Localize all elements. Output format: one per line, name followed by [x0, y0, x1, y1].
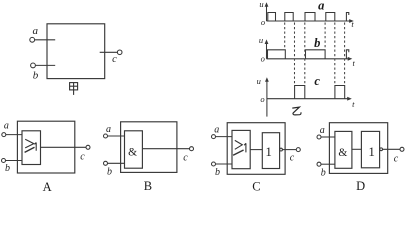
- option D wire a: [321, 136, 335, 138]
- chart a: u axis with arrow: [265, 2, 269, 21]
- terminal b of 甲 (circle): [31, 63, 36, 68]
- svg-text:c: c: [183, 153, 188, 164]
- chart a: partial pulse 5: [346, 13, 348, 22]
- chart b: u axis with arrow: [265, 39, 269, 58]
- chart a: pulse 3: [305, 13, 315, 22]
- option D inner AND-gate box U1: [335, 131, 352, 168]
- option C inner OR-gate box U1: [232, 130, 250, 168]
- svg-text:b: b: [215, 167, 220, 178]
- option D output wire c: [383, 148, 401, 150]
- svg-text:c: c: [112, 54, 117, 65]
- svg-text:u: u: [257, 76, 261, 86]
- svg-text:&: &: [338, 147, 347, 159]
- svg-text:&: &: [128, 147, 137, 159]
- svg-text:C: C: [252, 180, 260, 194]
- option B outer box: [121, 122, 177, 173]
- option A terminal c (circle): [86, 145, 90, 149]
- svg-text:1: 1: [368, 144, 375, 159]
- svg-text:u: u: [259, 0, 263, 9]
- terminal c of 甲 (circle): [117, 50, 122, 55]
- svg-text:b: b: [314, 36, 320, 50]
- svg-text:b: b: [107, 167, 112, 178]
- option B terminal c (circle): [190, 147, 194, 151]
- chart b: partial pulse 3: [346, 50, 348, 59]
- svg-text:1: 1: [265, 144, 272, 159]
- dashed timing line at c2 rise / a4 fall (x≈334.8): [334, 23, 336, 86]
- dashed timing line at c2 fall (x≈344.6): [344, 23, 346, 86]
- option C wire between gates: [250, 149, 262, 151]
- svg-text:u: u: [259, 35, 263, 45]
- option D terminal a (circle): [317, 135, 321, 139]
- svg-text:a: a: [318, 0, 324, 12]
- svg-text:b: b: [321, 167, 326, 178]
- svg-text:a: a: [320, 125, 325, 136]
- option A wire b: [6, 160, 22, 162]
- svg-text:a: a: [214, 125, 219, 136]
- option C terminal b (circle): [212, 162, 216, 166]
- option C terminal a (circle): [212, 135, 216, 139]
- svg-text:o: o: [261, 17, 265, 27]
- option D terminal c (circle): [400, 147, 404, 151]
- svg-text:c: c: [314, 74, 320, 88]
- svg-text:b: b: [5, 163, 10, 174]
- dashed timing line at b2 fall / a4 rise (x≈325.1): [324, 23, 326, 50]
- option B wire a: [108, 135, 125, 137]
- chart a: pulse 2: [285, 13, 293, 22]
- svg-text:b: b: [33, 69, 39, 81]
- wire b into 甲: [36, 64, 56, 66]
- svg-text:a: a: [4, 120, 9, 131]
- option C terminal c (circle): [296, 148, 300, 152]
- option C wire b: [216, 163, 232, 165]
- chart b: pulse 1: [268, 50, 286, 59]
- wire a into 甲: [35, 39, 55, 41]
- svg-text:D: D: [356, 179, 365, 193]
- option B wire b: [108, 162, 125, 164]
- label 乙 (hand-drawn CJK glyph): [292, 107, 301, 115]
- option A OR symbol ≥1: [25, 139, 37, 152]
- dashed timing line at b1 fall / a2 rise (x≈284.7): [284, 23, 286, 50]
- chart c: pulse 1: [295, 86, 305, 99]
- option C wire a: [216, 136, 232, 138]
- svg-text:o: o: [261, 54, 265, 64]
- chart b: pulse 2: [306, 50, 326, 59]
- svg-text:c: c: [290, 152, 295, 163]
- svg-text:a: a: [33, 25, 39, 37]
- dashed timing line at c1 rise (x≈294.5): [294, 23, 296, 86]
- option C inverter bubble: [280, 148, 283, 151]
- svg-text:a: a: [106, 124, 111, 135]
- chart b: t axis with arrow: [267, 57, 353, 61]
- svg-text:c: c: [80, 152, 85, 163]
- option A outer box: [17, 121, 74, 173]
- svg-text:o: o: [260, 94, 264, 104]
- svg-text:c: c: [394, 153, 399, 164]
- option D outer box: [329, 123, 387, 174]
- option A inner OR-gate box U1: [22, 131, 41, 165]
- option A terminal b (circle): [2, 159, 6, 163]
- option D terminal b (circle): [317, 162, 321, 166]
- option C outer box: [227, 123, 285, 175]
- option B inner AND-gate box U1: [125, 131, 143, 168]
- label 甲 (hand-drawn CJK glyph): [70, 83, 78, 95]
- chart a: pulse 1: [268, 13, 276, 22]
- svg-text:B: B: [144, 179, 152, 193]
- option D inner NOT-gate box U2: [361, 131, 379, 167]
- chart c: t axis with arrow: [267, 97, 352, 101]
- option C output wire c: [282, 149, 296, 151]
- option D wire b: [321, 163, 335, 165]
- chart c: pulse 2: [335, 86, 345, 99]
- terminal a of 甲 (circle): [30, 37, 35, 42]
- option C inner NOT-gate box U2: [262, 133, 279, 169]
- option A terminal a (circle): [2, 133, 6, 137]
- svg-text:A: A: [43, 180, 52, 194]
- chart a: t axis with arrow: [267, 19, 354, 23]
- option A output wire c: [41, 146, 87, 148]
- option B terminal a (circle): [104, 134, 108, 138]
- option C OR symbol ≥1: [233, 140, 246, 155]
- option B output wire c: [143, 148, 190, 150]
- option D inverter bubble: [380, 148, 383, 151]
- option B terminal b (circle): [104, 161, 108, 165]
- block 甲 box: [47, 24, 105, 79]
- dashed timing line at c1 fall / b2 rise (x≈304.8): [304, 23, 306, 86]
- chart c: u axis with arrow (tail extends below origin): [265, 77, 269, 116]
- option D wire between gates: [352, 148, 362, 150]
- wire c out of 甲: [100, 51, 118, 53]
- chart a: pulse 4: [326, 13, 335, 22]
- option A wire a: [6, 134, 22, 136]
